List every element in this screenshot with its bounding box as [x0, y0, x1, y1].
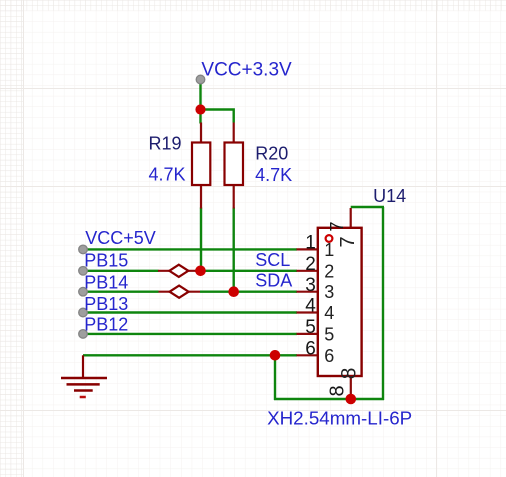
wire PB12 line to pin 5 — [83, 333, 297, 335]
wire SDA segment to pin 3 — [200, 291, 297, 293]
svg-text:U14: U14 — [373, 186, 406, 206]
svg-text:4: 4 — [324, 303, 334, 323]
ground bar 2 — [67, 383, 100, 386]
svg-text:4: 4 — [305, 296, 316, 317]
svg-text:5: 5 — [324, 324, 334, 344]
svg-text:3: 3 — [305, 275, 316, 296]
svg-text:1: 1 — [305, 233, 316, 254]
terminal PB15 — [79, 267, 88, 276]
svg-text:7: 7 — [327, 221, 347, 231]
wire pin6 junction down to bottom bus — [274, 355, 276, 400]
pin stub connector pin 7 — [350, 208, 352, 228]
pin stub connector pin 1 — [297, 248, 319, 250]
pin stub R19 top — [200, 123, 202, 144]
pin stub connector pin 8 — [350, 376, 352, 399]
svg-text:VCC+3.3V: VCC+3.3V — [201, 60, 292, 81]
svg-text:1: 1 — [324, 240, 334, 260]
net-tie diamond on PB14 line — [170, 286, 189, 298]
terminal VCC+5V — [79, 245, 88, 254]
wire right side vertical — [382, 207, 384, 400]
wire ground line to pin 6 — [83, 354, 297, 356]
svg-text:2: 2 — [305, 254, 316, 275]
svg-text:8: 8 — [326, 385, 348, 396]
net-tie diamond on PB15 line — [169, 265, 188, 277]
pin stub connector pin 5 — [297, 333, 319, 335]
svg-text:SCL: SCL — [255, 250, 290, 270]
pin stub connector pin 4 — [297, 311, 319, 313]
pin stub R19 bottom — [200, 184, 202, 209]
ground stub — [82, 355, 84, 378]
terminal PB14 — [79, 287, 88, 296]
ground bar 3 — [74, 389, 93, 392]
ground bar 4 — [80, 396, 86, 399]
svg-text:PB13: PB13 — [84, 294, 128, 314]
svg-text:3: 3 — [324, 282, 334, 302]
terminal VCC+3.3V — [196, 75, 205, 84]
pin stub connector pin 3 — [297, 291, 319, 293]
pin 1 marker circle — [326, 235, 333, 242]
svg-text:R20: R20 — [255, 143, 288, 163]
svg-text:PB12: PB12 — [84, 315, 128, 335]
junction dot at VCC+3.3V split — [195, 104, 205, 114]
svg-text:8: 8 — [338, 368, 361, 380]
svg-text:4.7K: 4.7K — [255, 165, 292, 185]
svg-text:2: 2 — [324, 261, 334, 281]
wire PB15 line left segment — [83, 270, 159, 272]
svg-text:R19: R19 — [149, 134, 182, 154]
svg-text:VCC+5V: VCC+5V — [85, 228, 156, 248]
junction dot on pin6 ground line — [270, 350, 281, 361]
svg-text:7: 7 — [337, 236, 359, 247]
wire PB13 line to pin 4 — [83, 311, 297, 313]
wire top to pin 7 — [351, 206, 384, 208]
pin stub net-tie on PB14 line — [159, 291, 201, 293]
junction dot SDA on PB14 — [228, 286, 239, 297]
pin stub net-tie on PB15 line — [158, 270, 200, 272]
resistor R19 — [192, 143, 210, 186]
svg-text:XH2.54mm-LI-6P: XH2.54mm-LI-6P — [267, 407, 412, 428]
connector U14 body — [318, 228, 362, 376]
pin stub connector pin 2 — [297, 270, 319, 272]
svg-text:5: 5 — [305, 317, 316, 338]
terminal PB13 — [79, 308, 88, 317]
svg-text:PB15: PB15 — [84, 251, 128, 271]
wire junction to R20 branch — [201, 110, 234, 123]
resistor R20 — [225, 143, 244, 186]
ground bar 1 — [61, 377, 107, 380]
svg-text:PB14: PB14 — [84, 272, 128, 292]
junction dot SCL on PB15 — [195, 266, 206, 277]
wire PB14 line left segment — [83, 291, 159, 293]
junction dot at pin 8 — [346, 394, 357, 405]
svg-text:SDA: SDA — [255, 271, 292, 291]
wire SCL segment to pin 2 — [195, 270, 297, 272]
terminal PB12 — [79, 330, 88, 339]
wire VCC+5V line to pin 1 — [83, 248, 297, 250]
pin stub R20 top — [233, 123, 235, 144]
wire bottom bus to right side — [274, 398, 384, 400]
wire R20 bottom to PB14 line (SDA) — [232, 208, 234, 293]
pin stub R20 bottom — [233, 184, 235, 209]
pin stub connector pin 6 — [297, 354, 319, 356]
svg-text:4.7K: 4.7K — [149, 165, 186, 185]
wire VCC+3.3V vertical to junction and down to resistors — [199, 83, 201, 124]
svg-text:6: 6 — [305, 339, 316, 360]
wire R19 bottom to PB15 line (SCL) — [200, 208, 202, 272]
svg-text:6: 6 — [324, 346, 334, 366]
